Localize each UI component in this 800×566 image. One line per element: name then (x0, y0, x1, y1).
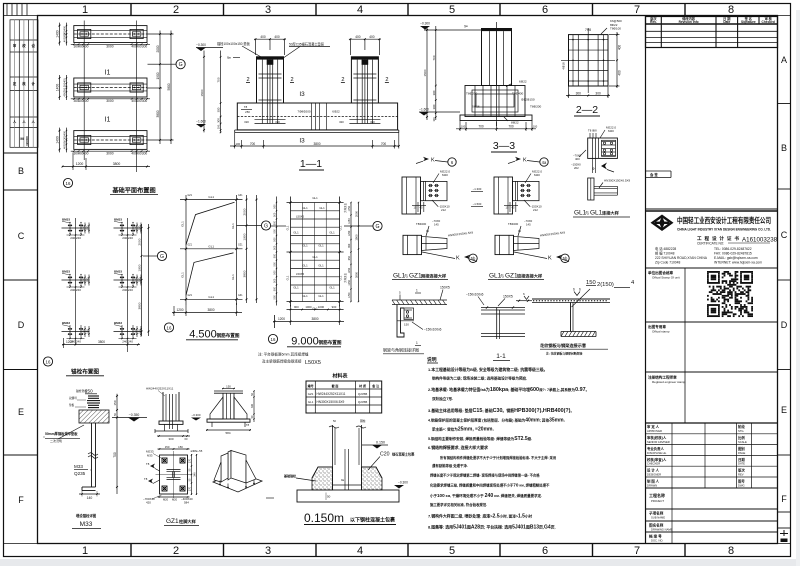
svg-text:Rev.: Rev. (650, 20, 657, 24)
svg-text:0.150: 0.150 (376, 441, 385, 445)
hui-qian tab cell (646, 171, 672, 178)
column (222, 393, 224, 419)
svg-text:钢筋布置图: 钢筋布置图 (319, 339, 342, 346)
svg-text:I3: I3 (299, 138, 305, 145)
circled grid ref 16 (63, 178, 72, 187)
svg-text:250: 250 (245, 110, 250, 114)
beam lines right (594, 185, 617, 187)
svg-text:GL1: GL1 (318, 264, 324, 268)
footing top slab (297, 490, 399, 502)
svg-text:584: 584 (225, 431, 230, 435)
anchor bolt group r3c2 (114, 331, 142, 333)
svg-text:HN300X150X6.5X9: HN300X150X6.5X9 (604, 179, 631, 183)
svg-text:STG.: STG. (738, 429, 745, 433)
svg-text:150: 150 (178, 445, 183, 449)
svg-text:K: K (431, 158, 435, 164)
strip footing I1 row 2 (74, 78, 147, 97)
anchor bolt plan 锚栓布置图 (43, 218, 166, 376)
svg-text:Q235B: Q235B (358, 392, 367, 396)
steel column (332, 425, 334, 465)
svg-text:400: 400 (355, 35, 361, 39)
svg-text:制 图 人: 制 图 人 (647, 479, 660, 484)
right band centering mark (780, 530, 788, 542)
svg-text:设 计 人: 设 计 人 (647, 468, 660, 473)
K arrow + bubble bottom (556, 255, 562, 259)
svg-text:C: C (18, 231, 25, 241)
svg-text:−1.500: −1.500 (473, 202, 482, 206)
svg-text:G: G (179, 62, 183, 68)
svg-text:Τ8: Τ8 (144, 477, 148, 481)
address lines (655, 246, 762, 265)
svg-text:L50X5: L50X5 (296, 214, 305, 218)
svg-text:≡Φ8≡−55: ≡Φ8≡−55 (191, 449, 203, 453)
svg-text:GL1: GL1 (287, 225, 290, 230)
company section divider double line (646, 208, 778, 210)
svg-text:100: 100 (533, 125, 538, 129)
svg-text:240: 240 (128, 288, 133, 292)
svg-text:及主梁钢筋焊接角钢连接: 及主梁钢筋焊接角钢连接 (262, 359, 302, 364)
svg-text:K: K (548, 256, 552, 262)
svg-text:1400: 1400 (55, 30, 59, 38)
svg-text:人: 人 (31, 119, 36, 124)
svg-text:M33: M33 (147, 454, 153, 458)
brace top bay (186, 202, 235, 245)
svg-text:5b: 5b (563, 256, 568, 261)
svg-text:F: F (18, 495, 24, 505)
svg-text:M20: M20 (442, 173, 448, 177)
svg-text:注: 平台钢板厚6mm 其连接焊缝: 注: 平台钢板厚6mm 其连接焊缝 (258, 352, 309, 357)
svg-text:140: 140 (87, 496, 93, 500)
svg-text:500: 500 (273, 212, 276, 217)
svg-text:250: 250 (85, 389, 93, 394)
svg-text:G: G (375, 224, 379, 230)
anchor rods (169, 394, 171, 429)
svg-text:5800: 5800 (167, 83, 171, 90)
svg-text:400: 400 (63, 144, 67, 149)
flange plate (231, 451, 246, 484)
svg-text:GL1: GL1 (302, 264, 308, 268)
inner verticals (302, 203, 304, 302)
left band line (37, 16, 39, 544)
svg-text:材料表: 材料表 (332, 373, 348, 380)
svg-text:K: K (523, 158, 527, 164)
svg-text:3—3: 3—3 (493, 140, 515, 152)
svg-text:Τ8Φ200: Τ8Φ200 (530, 105, 542, 109)
svg-text:DISCIPLINE LE.: DISCIPLINE LE. (647, 451, 667, 455)
grid bubble G (anchor plan) (143, 255, 158, 257)
svg-text:BM33: BM33 (114, 218, 122, 222)
beam with bolts (513, 181, 540, 200)
svg-text:400: 400 (260, 35, 266, 39)
elevation 4.500 (164, 195, 270, 341)
bolt holes corners (162, 458, 167, 463)
svg-text:图号: 图号 (738, 479, 745, 484)
svg-text:500: 500 (273, 229, 276, 234)
svg-text:3000: 3000 (106, 45, 114, 49)
svg-text:145: 145 (526, 222, 531, 226)
svg-text:BM33: BM33 (62, 270, 70, 274)
svg-text:16: 16 (167, 326, 172, 331)
svg-text:Q235B: Q235B (358, 400, 367, 404)
svg-text:6Φ22: 6Φ22 (332, 110, 340, 114)
svg-text:150: 150 (86, 277, 90, 282)
web down (570, 303, 572, 332)
svg-text:设: 设 (32, 43, 36, 48)
svg-text:施工要求详见相关标准, 符合验收规范.: 施工要求详见相关标准, 符合验收规范. (430, 502, 487, 507)
svg-text:Offical stamp: Offical stamp (652, 330, 670, 334)
svg-text:专业负责人: 专业负责人 (647, 446, 665, 451)
svg-text:170: 170 (189, 486, 192, 491)
svg-text:1.本工程基础设计等级为B级, 安全等级为建筑物二级; 抗震: 1.本工程基础设计等级为B级, 安全等级为建筑物二级; 抗震等级三级。 (428, 367, 548, 372)
svg-text:以下钢柱混凝土包裹: 以下钢柱混凝土包裹 (350, 517, 396, 524)
svg-text:REV: REV (738, 473, 744, 477)
svg-text:GZ1: GZ1 (238, 244, 243, 246)
svg-text:Τ8Φ200: Τ8Φ200 (466, 92, 478, 96)
svg-text:GL1: GL1 (319, 206, 325, 210)
svg-text:240: 240 (70, 288, 75, 292)
svg-text:170: 170 (189, 458, 192, 463)
svg-text:GZ1: GZ1 (308, 392, 314, 396)
svg-text:150: 150 (586, 280, 596, 286)
svg-text:300: 300 (63, 82, 67, 87)
svg-text:Τ8Φ400: Τ8Φ400 (512, 92, 524, 96)
column pad on footing row 2 (78, 83, 91, 92)
column pad on footing row 1 (130, 29, 143, 38)
svg-text:500: 500 (274, 253, 277, 258)
hinged conn column (403, 235, 422, 254)
svg-text:大样见右: 大样见右 (343, 203, 347, 214)
svg-text:与: 与 (585, 210, 589, 216)
right dims (253, 391, 255, 422)
svg-text:500: 500 (274, 220, 277, 225)
svg-text:I3: I3 (299, 91, 305, 98)
svg-text:备 注: 备 注 (371, 383, 379, 388)
svg-text:240: 240 (76, 236, 81, 240)
footing slab 3-3 (460, 115, 532, 121)
base plate parallelogram (213, 472, 262, 492)
column section rect (569, 35, 609, 86)
svg-text:铰接连接大样: 铰接连接大样 (517, 273, 543, 280)
svg-text:1200: 1200 (76, 162, 84, 166)
svg-text:GL1: GL1 (208, 244, 214, 248)
svg-text:320: 320 (339, 120, 344, 124)
anchor bolt group r2c2 (114, 279, 142, 281)
svg-text:Τ8: Τ8 (146, 462, 150, 466)
svg-text:500: 500 (274, 237, 277, 242)
K arrow + bubble top (515, 157, 521, 161)
svg-text:E-MAIL: gsb@hqlsxm-xa.com: E-MAIL: gsb@hqlsxm-xa.com (714, 256, 758, 260)
left band dividers (4, 153, 38, 455)
svg-text:−150x100x6: −150x100x6 (466, 293, 484, 297)
K arrow + bubble bottom (464, 255, 470, 259)
svg-text:2000: 2000 (243, 208, 247, 215)
svg-text:700: 700 (432, 55, 436, 60)
svg-text:300: 300 (217, 107, 221, 112)
svg-text:1—1: 1—1 (300, 158, 322, 170)
svg-text:日期: 日期 (738, 457, 745, 462)
svg-text:400: 400 (274, 35, 280, 39)
svg-text:G: G (160, 254, 164, 260)
svg-text:与: 与 (500, 273, 504, 279)
svg-text:校核(审查)人: 校核(审查)人 (647, 457, 667, 462)
grid bubble G right (373, 221, 382, 230)
svg-text:GZ1: GZ1 (188, 195, 193, 197)
svg-text:400: 400 (63, 92, 67, 97)
splice top view (588, 138, 618, 158)
svg-text:150: 150 (165, 445, 170, 449)
svg-text:6Φ16: 6Φ16 (472, 105, 480, 109)
svg-text:240: 240 (122, 340, 127, 344)
I-beam top flange section (481, 307, 525, 309)
svg-text:C: C (781, 230, 788, 240)
svg-text:审核(校核)人: 审核(校核)人 (647, 435, 667, 440)
svg-text:所有钢结构构件焊缝处要求不大于少于计划增强焊接检验标准- 不: 所有钢结构构件焊缝处要求不大于少于计划增强焊接检验标准- 不大于主焊: 采用 (440, 455, 556, 460)
svg-text:GL1: GL1 (208, 195, 214, 199)
bolt group right (602, 141, 616, 143)
svg-text:1400: 1400 (56, 84, 60, 92)
break marks top (329, 426, 339, 428)
svg-text:700: 700 (508, 125, 514, 129)
svg-text:I1: I1 (105, 117, 111, 124)
svg-text:说明: 说明 (427, 356, 437, 363)
2-2 right dims (616, 32, 618, 88)
plan right dim chain (159, 31, 161, 145)
hatched top plate (392, 300, 446, 305)
pedestal top dim 400 400 (349, 38, 381, 40)
svg-text:钢柱: 钢柱 (360, 419, 366, 423)
section 1-1 (196, 35, 400, 170)
svg-text:3800: 3800 (313, 142, 320, 146)
svg-text:400: 400 (575, 157, 580, 161)
weld arrow (601, 163, 607, 170)
right dim chain (350, 203, 352, 302)
svg-text:SENIOR ADVISER: SENIOR ADVISER (647, 440, 670, 444)
column pad on footing row 1 (78, 29, 91, 38)
svg-text:240: 240 (128, 340, 133, 344)
svg-text:F: F (781, 494, 787, 504)
right dims 150 / 700 (116, 394, 118, 423)
bolt marks (406, 311, 408, 313)
svg-text:HW244X252X11X11: HW244X252X11X11 (317, 392, 346, 396)
svg-text:BM33: BM33 (62, 321, 70, 325)
svg-text:GL1: GL1 (340, 225, 343, 230)
bolts below (164, 424, 166, 431)
right band dividers (778, 104, 791, 529)
left band letters (18, 166, 25, 505)
svg-text:400: 400 (618, 45, 622, 51)
svg-text:16: 16 (271, 337, 276, 342)
svg-text:7: 7 (634, 545, 640, 557)
anchor bolt group r2c1 (62, 279, 90, 281)
svg-text:4: 4 (357, 545, 363, 557)
top-left band hatch ticks (7, 4, 27, 16)
svg-text:−0.300: −0.300 (398, 481, 408, 485)
detail column stiffeners elevation (191, 385, 255, 436)
svg-text:定: 定 (12, 81, 17, 86)
svg-text:020358: 020358 (25, 136, 29, 146)
svg-text:4: 4 (357, 4, 363, 16)
svg-text:GL1: GL1 (302, 244, 308, 248)
beam section lower (588, 178, 594, 200)
svg-text:0.150m: 0.150m (304, 511, 344, 525)
svg-text:遇有缺陷等级 处理干净.: 遇有缺陷等级 处理干净. (432, 463, 468, 468)
svg-text:1500: 1500 (423, 69, 427, 76)
2-2 bottom dims (566, 95, 610, 97)
svg-text:300: 300 (63, 33, 67, 38)
svg-text:编号: 编号 (308, 383, 314, 388)
svg-text:300: 300 (432, 90, 436, 95)
anchor bolt group r1c1 (62, 227, 90, 229)
svg-text:650: 650 (348, 243, 351, 248)
svg-text:电 话 4882228: 电 话 4882228 (655, 246, 676, 251)
anchor plan grid verticals (75, 218, 77, 345)
svg-text:焊缝长度不少于规定焊缝第二焊缝- 现场焊接与现场中间焊缝第一: 焊缝长度不少于规定焊缝第二焊缝- 现场焊接与现场中间焊缝第一级- 不合格 (429, 473, 540, 478)
signature table (646, 423, 778, 488)
svg-text:M20: M20 (608, 129, 614, 133)
dims below (157, 435, 190, 437)
svg-text:6Φ22: 6Φ22 (519, 80, 527, 84)
hinged conn beam (514, 236, 540, 250)
QR code (707, 271, 753, 317)
svg-text:HW244X252X11X11: HW244X252X11X11 (146, 387, 174, 391)
svg-text:GL1: GL1 (590, 210, 603, 217)
svg-text:M33: M33 (74, 464, 83, 469)
svg-text:连接大样: 连接大样 (602, 210, 620, 217)
svg-text:化验要求焊缝三级, 焊缝质量和中间焊缝现场处理不小于70 κ: 化验要求焊缝三级, 焊缝质量和中间焊缝现场处理不小于70 κм, 焊缝粗糙处理不 (430, 483, 550, 488)
svg-text:240: 240 (70, 236, 75, 240)
notes block 说明 (427, 356, 589, 531)
svg-text:8: 8 (728, 545, 734, 557)
svg-text:1000: 1000 (318, 305, 325, 309)
svg-text:CHINA LIGHT INDUSTRY XI'AN DES: CHINA LIGHT INDUSTRY XI'AN DESIGN ENGINE… (677, 228, 771, 232)
svg-text:202: 202 (574, 166, 579, 170)
svg-text:阶段: 阶段 (738, 424, 745, 429)
svg-text:审 定 人: 审 定 人 (647, 424, 660, 429)
svg-text:GL1: GL1 (293, 286, 299, 290)
svg-text:D: D (18, 320, 25, 330)
grid bubble G (plan) (162, 63, 176, 65)
footing left dims 1400 (59, 23, 61, 46)
svg-text:G: G (264, 224, 268, 230)
svg-text:5: 5 (449, 4, 455, 16)
svg-text:400: 400 (83, 151, 89, 155)
svg-text:500: 500 (274, 204, 277, 209)
grid line to G bubble (237, 225, 262, 227)
circled 16 (9.000) (268, 334, 277, 343)
stamp row 2 (684, 322, 686, 372)
svg-text:Revision info: Revision info (679, 20, 699, 24)
svg-text:GL1: GL1 (231, 274, 235, 280)
svg-text:L50X5: L50X5 (305, 360, 321, 366)
svg-text:1250: 1250 (348, 218, 351, 224)
svg-text:−1.300: −1.300 (473, 187, 482, 191)
detail isometric base (213, 451, 262, 493)
svg-text:注册结构工程师章: 注册结构工程师章 (648, 375, 677, 380)
svg-text:花纹钢板与钢梁连接示意: 花纹钢板与钢梁连接示意 (540, 342, 587, 349)
svg-text:700: 700 (113, 452, 117, 458)
svg-text:300: 300 (142, 99, 148, 103)
footing dim chain (71, 150, 150, 152)
svg-text:320: 320 (370, 120, 375, 124)
svg-text:150X5: 150X5 (503, 295, 513, 299)
bottom lines (481, 333, 525, 335)
svg-text:GL1: GL1 (318, 244, 324, 248)
svg-text:320: 320 (275, 120, 280, 124)
svg-text:500: 500 (274, 295, 277, 300)
svg-text:3: 3 (265, 545, 271, 557)
svg-text:GZ1: GZ1 (188, 244, 193, 246)
svg-text:GL1: GL1 (312, 196, 318, 200)
svg-text:GL1: GL1 (329, 286, 335, 290)
svg-text:7: 7 (634, 4, 640, 16)
page edge shadow right (796, 10, 800, 566)
column pad on footing row 2 (130, 83, 143, 92)
inner base plate (333, 484, 362, 486)
svg-text:M33: M33 (80, 521, 93, 528)
svg-text:Q235: Q235 (74, 471, 86, 476)
column pad on footing row 3 (130, 135, 143, 144)
svg-text:钢构件等级为二级; 现场涂装二级; 选用基础设计等级为预应.: 钢构件等级为二级; 现场涂装二级; 选用基础设计等级为预应. (432, 376, 527, 381)
svg-text:垫板: 垫板 (69, 403, 75, 407)
top dims (158, 448, 190, 450)
svg-text:300: 300 (63, 87, 67, 92)
svg-text:500: 500 (274, 278, 277, 283)
svg-text:1200: 1200 (66, 340, 73, 344)
svg-text:400: 400 (63, 25, 67, 30)
svg-text:M20: M20 (163, 498, 169, 502)
svg-text:Τ8Φ200: Τ8Φ200 (416, 222, 427, 226)
svg-text:GZ1: GZ1 (166, 518, 179, 525)
top ruler ticks (131, 3, 685, 16)
svg-text:K: K (456, 256, 460, 262)
svg-text:单位出图合格章: 单位出图合格章 (648, 270, 674, 275)
svg-text:1: 1 (416, 289, 418, 293)
svg-text:1250: 1250 (348, 267, 351, 273)
stamp row 3 (684, 372, 686, 423)
svg-text:PROJECT: PROJECT (651, 499, 664, 503)
svg-text:钢梁与角钢连接详图: 钢梁与角钢连接详图 (383, 347, 419, 353)
svg-text:100: 100 (217, 124, 221, 129)
svg-text:材 质: 材 质 (359, 383, 366, 388)
svg-text:300: 300 (63, 140, 67, 145)
pedestal rebar verticals (261, 60, 263, 124)
K arrow + bubble top (423, 157, 429, 161)
svg-text:GL1: GL1 (312, 255, 318, 259)
bottom ruler band line (4, 543, 791, 545)
svg-text:7Φ8: 7Φ8 (585, 28, 591, 32)
svg-text:Signature: Signature (741, 20, 756, 24)
svg-text:D: D (781, 320, 788, 330)
nut stack (88, 395, 99, 397)
svg-text:与: 与 (404, 273, 408, 279)
svg-text:GL1: GL1 (308, 400, 314, 404)
svg-text:2000: 2000 (355, 210, 359, 217)
svg-text:1400: 1400 (56, 136, 60, 144)
pedestal top dim 400 400 (254, 38, 286, 40)
rungs (287, 202, 344, 204)
svg-text:M20: M20 (534, 173, 540, 177)
svg-text:240: 240 (128, 236, 133, 240)
base plate (207, 419, 250, 422)
grid line through left pads (83, 21, 85, 161)
svg-text:GL1: GL1 (340, 275, 343, 280)
svg-text:APPROVER: APPROVER (647, 429, 662, 433)
svg-text:BM33: BM33 (114, 270, 122, 274)
svg-text:400: 400 (618, 70, 622, 76)
svg-text:−0.300: −0.300 (420, 22, 430, 26)
end ticks (289, 201, 291, 203)
svg-text:400: 400 (83, 45, 89, 49)
